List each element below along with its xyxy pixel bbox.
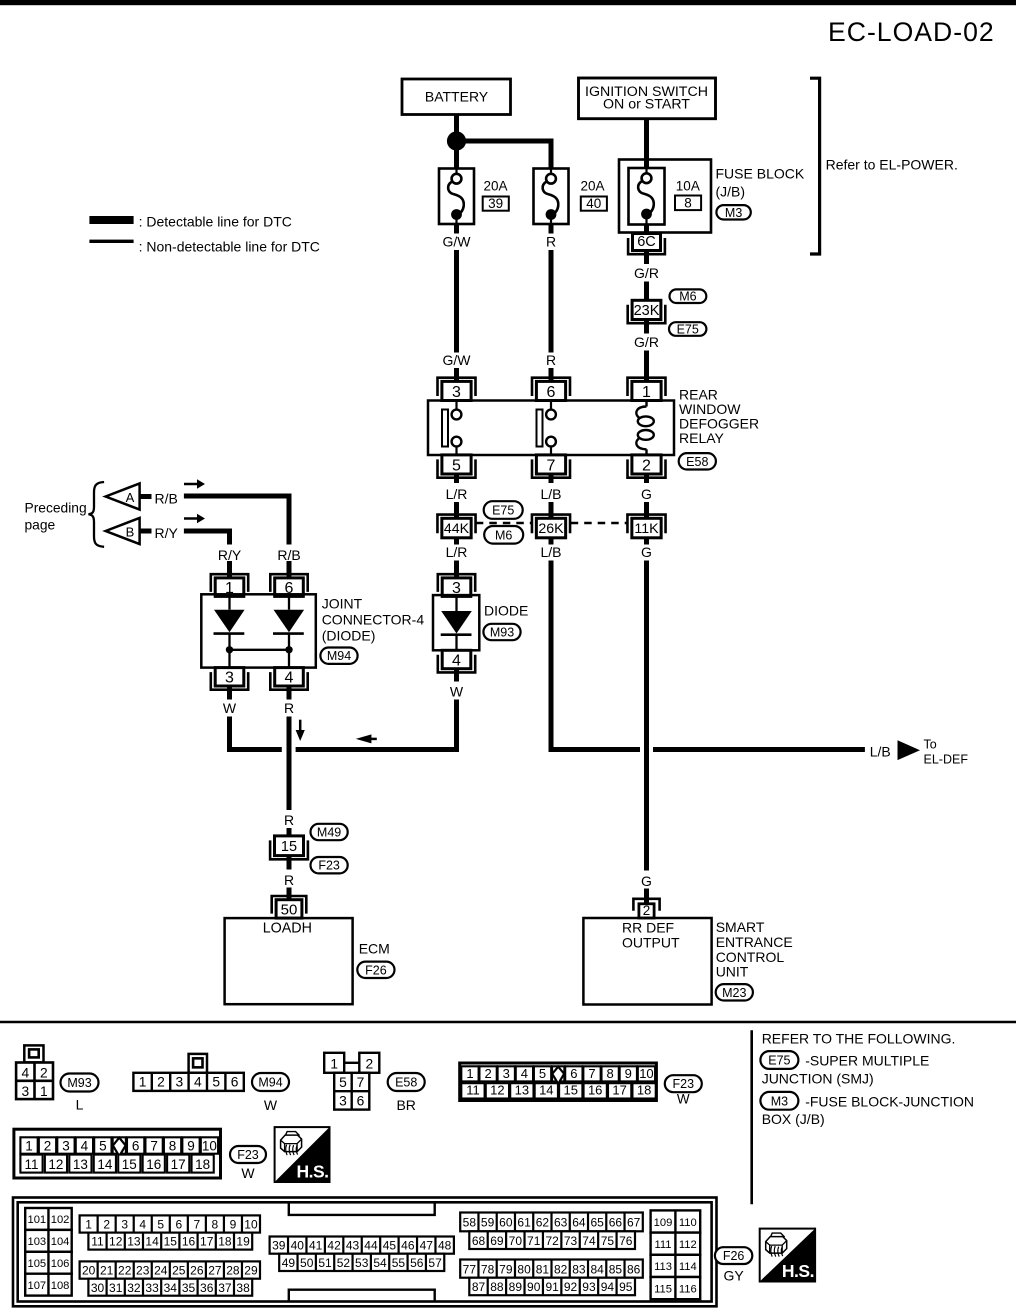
- ignition switch: [579, 78, 716, 119]
- wire 6C to 23K: [644, 251, 649, 301]
- svg-text:10: 10: [202, 1138, 217, 1153]
- joint connector-4 M94 box: [201, 594, 315, 667]
- svg-text:28: 28: [226, 1264, 240, 1278]
- F26 pins 77-95: [460, 1260, 643, 1296]
- svg-text:16: 16: [182, 1235, 196, 1249]
- wire R/B from preceding page: [184, 496, 289, 579]
- label GY F26: [723, 1267, 744, 1283]
- label BR E58: [396, 1097, 415, 1113]
- svg-text:45: 45: [383, 1239, 397, 1253]
- SMJ connector 44K: [437, 515, 475, 538]
- refer to EL-POWER bracket: [810, 78, 820, 254]
- svg-text:R/B: R/B: [277, 547, 300, 563]
- svg-text:R: R: [284, 812, 294, 828]
- dashed SMJ link 26K-11K: [571, 522, 628, 524]
- svg-text:ON or START: ON or START: [603, 96, 690, 112]
- wire ignition switch to fuse block: [644, 119, 649, 162]
- svg-text:Refer to EL-POWER.: Refer to EL-POWER.: [826, 157, 958, 173]
- svg-text:LOADH: LOADH: [263, 920, 312, 936]
- svg-text:23: 23: [136, 1264, 150, 1278]
- svg-text:46: 46: [401, 1239, 415, 1253]
- svg-text:G: G: [641, 873, 652, 889]
- wire relay pin 7 to 26K: [549, 474, 554, 519]
- svg-text:2: 2: [365, 1057, 373, 1072]
- svg-text:52: 52: [337, 1256, 351, 1270]
- diode symbol: [441, 595, 472, 650]
- label W F23 second: [241, 1165, 255, 1181]
- label W joint connector: [223, 700, 237, 716]
- svg-text:34: 34: [164, 1281, 178, 1295]
- svg-text:3: 3: [503, 1066, 510, 1081]
- svg-text:3: 3: [21, 1084, 29, 1099]
- svg-text:6C: 6C: [637, 234, 656, 250]
- svg-text:7: 7: [547, 458, 556, 475]
- svg-text:115: 115: [654, 1283, 672, 1295]
- ECM box: [225, 918, 353, 1004]
- svg-text:49: 49: [282, 1256, 296, 1270]
- svg-text:44K: 44K: [444, 521, 470, 537]
- svg-text:DIODE: DIODE: [484, 602, 528, 618]
- svg-text:14: 14: [145, 1235, 159, 1249]
- svg-text:A: A: [126, 490, 135, 505]
- svg-text:4: 4: [452, 652, 461, 669]
- svg-text:13: 13: [515, 1083, 529, 1098]
- wire fuse to 6C: [644, 225, 649, 234]
- label G/R lower: [634, 334, 659, 350]
- label R/Y preceding: [155, 525, 179, 541]
- svg-text:page: page: [25, 518, 56, 533]
- label 10A 8: [675, 179, 701, 211]
- connector M3 oval note: [760, 1092, 798, 1110]
- svg-text:59: 59: [481, 1216, 495, 1230]
- F26 pins 58-76: [460, 1213, 643, 1250]
- svg-text:9: 9: [187, 1138, 195, 1153]
- svg-text:3: 3: [176, 1074, 184, 1089]
- svg-text:: Non-detectable line for DTC: : Non-detectable line for DTC: [139, 238, 320, 254]
- svg-text:EC-LOAD-02: EC-LOAD-02: [828, 17, 995, 47]
- svg-text:90: 90: [527, 1280, 541, 1294]
- relay contact 3-5: [442, 401, 461, 456]
- svg-text:M94: M94: [258, 1076, 282, 1090]
- svg-text:2: 2: [44, 1138, 52, 1153]
- svg-text:74: 74: [582, 1234, 596, 1248]
- svg-text:108: 108: [51, 1280, 70, 1292]
- svg-text:30: 30: [91, 1281, 105, 1295]
- svg-text:L/R: L/R: [446, 486, 468, 502]
- svg-text:RELAY: RELAY: [679, 430, 725, 446]
- label LOADH: [263, 920, 312, 936]
- svg-text:17: 17: [612, 1083, 626, 1098]
- svg-text:6: 6: [132, 1138, 140, 1153]
- label 20A 40: [581, 179, 607, 211]
- svg-text:6: 6: [357, 1094, 365, 1109]
- svg-text:70: 70: [509, 1234, 523, 1248]
- label R upper: [546, 234, 556, 250]
- label R above M49: [284, 812, 294, 828]
- joint connector link wire: [230, 650, 290, 668]
- svg-text:106: 106: [51, 1258, 70, 1270]
- svg-text:G: G: [641, 486, 652, 502]
- wire fuse 39 to relay pin 3: [454, 224, 459, 382]
- label R/Y column: [218, 547, 242, 563]
- relay pin 1: [628, 378, 666, 401]
- svg-text:36: 36: [200, 1281, 214, 1295]
- SMJ connector 11K: [627, 515, 665, 538]
- svg-text:15: 15: [122, 1157, 137, 1172]
- svg-text:2: 2: [643, 903, 651, 918]
- arrow R/Y direction: [184, 514, 205, 523]
- svg-text:1: 1: [466, 1066, 473, 1081]
- svg-text:89: 89: [509, 1280, 523, 1294]
- F26 pins 1-19: [80, 1215, 260, 1249]
- svg-text:OUTPUT: OUTPUT: [622, 934, 680, 950]
- label L/R lower: [446, 544, 468, 560]
- label R joint connector: [284, 700, 294, 716]
- label G upper: [641, 486, 652, 502]
- relay pin 6: [532, 378, 570, 401]
- svg-text:1: 1: [85, 1218, 92, 1232]
- wire 11K to smart entrance: [644, 538, 649, 904]
- svg-text:40: 40: [586, 196, 601, 211]
- svg-text:JOINT: JOINT: [322, 596, 363, 612]
- wire 23K to relay pin 1: [644, 320, 649, 382]
- svg-text:1: 1: [25, 1138, 33, 1153]
- svg-text:10: 10: [244, 1218, 258, 1232]
- connector view F23 first: [460, 1063, 657, 1101]
- label ECM: [359, 941, 390, 957]
- F26 pins 39-57: [270, 1237, 454, 1272]
- svg-text:29: 29: [244, 1264, 258, 1278]
- H.S. symbol lower: [760, 1229, 815, 1282]
- svg-text:91: 91: [545, 1280, 559, 1294]
- svg-text:G/R: G/R: [634, 265, 659, 281]
- connector view E58: [324, 1053, 379, 1110]
- joint connector pin 4: [270, 668, 307, 690]
- svg-text:116: 116: [679, 1283, 697, 1295]
- svg-text:10A: 10A: [676, 179, 700, 194]
- svg-text:10: 10: [639, 1066, 653, 1081]
- battery: [402, 79, 511, 115]
- label R lower: [546, 352, 556, 368]
- svg-text:40: 40: [291, 1239, 305, 1253]
- svg-text:2: 2: [157, 1074, 165, 1089]
- connector view M94: [133, 1054, 243, 1091]
- svg-text:5: 5: [157, 1218, 164, 1232]
- svg-text:86: 86: [627, 1262, 641, 1276]
- svg-text:103: 103: [27, 1236, 46, 1248]
- svg-text:31: 31: [109, 1281, 123, 1295]
- svg-text:110: 110: [679, 1217, 697, 1229]
- svg-text:2: 2: [40, 1066, 48, 1081]
- svg-text:75: 75: [601, 1234, 615, 1248]
- connector view F23 second: [14, 1129, 221, 1178]
- svg-text:F26: F26: [723, 1249, 745, 1263]
- wire relay pin 2 to 11K: [644, 474, 649, 519]
- svg-text:W: W: [241, 1165, 255, 1181]
- svg-text:4: 4: [194, 1074, 202, 1089]
- svg-text:6: 6: [175, 1218, 182, 1232]
- svg-text:R/Y: R/Y: [218, 547, 242, 563]
- svg-text:51: 51: [318, 1256, 332, 1270]
- svg-text:14: 14: [539, 1083, 553, 1098]
- svg-text:21: 21: [100, 1264, 114, 1278]
- legend non-detectable line for DTC: [89, 238, 320, 254]
- svg-text:5: 5: [539, 1066, 546, 1081]
- svg-text:72: 72: [545, 1234, 559, 1248]
- svg-text:56: 56: [410, 1256, 424, 1270]
- svg-text:73: 73: [564, 1234, 578, 1248]
- svg-text:BOX (J/B): BOX (J/B): [762, 1111, 825, 1127]
- svg-text:M6: M6: [679, 290, 696, 304]
- svg-text:94: 94: [601, 1280, 615, 1294]
- svg-text:37: 37: [218, 1281, 232, 1295]
- svg-text:5: 5: [99, 1138, 107, 1153]
- svg-text:47: 47: [420, 1239, 434, 1253]
- F26 pins 109-116: [651, 1210, 701, 1299]
- label W M94: [264, 1097, 278, 1113]
- svg-text:E58: E58: [686, 455, 708, 469]
- relay pin 7: [532, 455, 570, 478]
- svg-text:20A: 20A: [484, 179, 508, 194]
- connector M93 oval bottom: [61, 1074, 99, 1092]
- svg-text:60: 60: [499, 1216, 513, 1230]
- connector E75 oval note: [760, 1051, 798, 1069]
- connector M93 oval: [483, 624, 520, 640]
- wire 15 to pin 50: [287, 856, 292, 900]
- svg-text:W: W: [450, 684, 464, 700]
- svg-text:F23: F23: [237, 1148, 259, 1162]
- svg-text:M6: M6: [495, 528, 512, 542]
- fuse 20A 40: [534, 169, 569, 225]
- svg-text:GY: GY: [723, 1267, 744, 1283]
- svg-text:18: 18: [218, 1235, 232, 1249]
- label G above pin 2: [641, 873, 652, 889]
- svg-text:71: 71: [527, 1234, 541, 1248]
- svg-text:104: 104: [51, 1236, 70, 1248]
- connector E75 oval upper: [669, 322, 706, 336]
- svg-text:27: 27: [208, 1264, 222, 1278]
- svg-text:88: 88: [490, 1280, 504, 1294]
- svg-text:83: 83: [572, 1262, 586, 1276]
- svg-text:E75: E75: [768, 1054, 790, 1068]
- label R/B preceding: [155, 491, 178, 507]
- svg-text:To: To: [924, 737, 937, 751]
- svg-text:25: 25: [172, 1264, 186, 1278]
- svg-text:9: 9: [230, 1218, 237, 1232]
- svg-text:1: 1: [642, 384, 651, 401]
- connector M23 oval: [716, 984, 753, 1000]
- wire inside fuse block: [644, 161, 649, 168]
- svg-text:3: 3: [339, 1094, 347, 1109]
- svg-text:20A: 20A: [581, 179, 605, 194]
- svg-text:2: 2: [484, 1066, 491, 1081]
- wire diode to merge: [296, 668, 457, 750]
- svg-text:82: 82: [554, 1262, 568, 1276]
- connector E75 oval mid: [484, 501, 523, 519]
- svg-text:H.S.: H.S.: [782, 1261, 814, 1281]
- svg-text:39: 39: [272, 1239, 286, 1253]
- svg-text:H.S.: H.S.: [296, 1161, 328, 1181]
- svg-text:8: 8: [169, 1138, 177, 1153]
- F26 pins 20-38: [80, 1261, 260, 1295]
- F26 pins 101-108: [25, 1208, 71, 1296]
- connector M6 oval mid: [484, 526, 523, 544]
- svg-text:17: 17: [171, 1157, 186, 1172]
- svg-text:M3: M3: [771, 1094, 788, 1108]
- svg-text:102: 102: [51, 1214, 70, 1226]
- label R above pin 50: [284, 872, 294, 888]
- svg-text:E75: E75: [492, 504, 514, 518]
- label L/B upper: [540, 486, 561, 502]
- svg-text:11: 11: [24, 1157, 38, 1172]
- svg-text:12: 12: [48, 1157, 63, 1172]
- label R/B column: [277, 547, 300, 563]
- label G/W upper: [443, 234, 472, 250]
- label L/B lower: [540, 544, 561, 560]
- svg-text:50: 50: [300, 1256, 314, 1270]
- svg-text:7: 7: [194, 1218, 201, 1232]
- svg-text:F23: F23: [318, 859, 340, 873]
- svg-text:95: 95: [619, 1280, 633, 1294]
- svg-text:G: G: [641, 544, 652, 560]
- svg-text:35: 35: [182, 1281, 196, 1295]
- label W F23 first: [677, 1092, 690, 1107]
- connector M94 oval: [320, 648, 357, 664]
- svg-text:24: 24: [154, 1264, 168, 1278]
- connector E58 oval: [679, 453, 716, 469]
- wire R/Y from preceding page: [184, 531, 230, 579]
- svg-text:43: 43: [346, 1239, 360, 1253]
- svg-text:R: R: [546, 352, 556, 368]
- svg-text:54: 54: [373, 1256, 387, 1270]
- svg-text:R: R: [284, 700, 294, 716]
- svg-text:ENTRANCE: ENTRANCE: [716, 934, 793, 950]
- svg-text:8: 8: [684, 195, 692, 210]
- svg-text:L/R: L/R: [446, 544, 468, 560]
- svg-text:67: 67: [627, 1216, 641, 1230]
- label SMART ENTRANCE CONTROL UNIT: [716, 919, 793, 979]
- wire 44K to diode: [454, 538, 459, 578]
- svg-text:38: 38: [236, 1281, 250, 1295]
- svg-text:63: 63: [554, 1216, 568, 1230]
- svg-text:-SUPER MULTIPLE: -SUPER MULTIPLE: [805, 1053, 929, 1069]
- connector M6 oval upper: [670, 289, 707, 303]
- label G/R upper: [634, 265, 659, 281]
- wire battery to junction: [454, 115, 459, 142]
- connector F23 oval mid: [311, 857, 348, 873]
- joint connector pin 1: [211, 574, 248, 597]
- svg-text:UNIT: UNIT: [716, 963, 749, 979]
- wire joint pin 4 to ECM: [287, 685, 292, 837]
- label SUPER MULTIPLE JUNCTION: [762, 1053, 930, 1087]
- svg-text:4: 4: [139, 1218, 146, 1232]
- SMJ connector 26K: [532, 515, 570, 538]
- connector 6C: [628, 234, 665, 255]
- svg-text:20: 20: [82, 1264, 96, 1278]
- svg-text:1: 1: [40, 1084, 48, 1099]
- svg-text:81: 81: [536, 1262, 550, 1276]
- diode pin 3: [438, 574, 475, 597]
- svg-text:L/B: L/B: [540, 486, 561, 502]
- fuse 10A 8: [629, 168, 665, 225]
- connector F23 oval bottom first: [665, 1075, 702, 1092]
- svg-text:3: 3: [62, 1138, 70, 1153]
- label G lower: [641, 544, 652, 560]
- joint connector junction B: [285, 646, 292, 653]
- svg-text:M3: M3: [725, 206, 742, 220]
- svg-text:4: 4: [521, 1066, 528, 1081]
- svg-text:58: 58: [463, 1216, 477, 1230]
- svg-text:57: 57: [428, 1256, 442, 1270]
- svg-text:(J/B): (J/B): [716, 184, 746, 200]
- label L/B at EL-DEF: [870, 743, 891, 759]
- svg-text:85: 85: [609, 1262, 623, 1276]
- svg-text:41: 41: [309, 1239, 323, 1253]
- svg-text:12: 12: [109, 1235, 123, 1249]
- svg-text:RR DEF: RR DEF: [622, 919, 674, 935]
- svg-text:77: 77: [463, 1262, 477, 1276]
- svg-text:84: 84: [590, 1262, 604, 1276]
- svg-text:1: 1: [330, 1057, 338, 1072]
- connector M3 oval: [716, 205, 750, 220]
- title EC-LOAD-02: [828, 17, 995, 47]
- arrow left on merge wire: [356, 734, 377, 743]
- svg-text:109: 109: [654, 1217, 673, 1229]
- svg-text:W: W: [223, 700, 237, 716]
- svg-text:L/B: L/B: [540, 544, 561, 560]
- svg-text:M93: M93: [490, 626, 514, 640]
- svg-text:SMART: SMART: [716, 919, 765, 935]
- svg-text:23K: 23K: [634, 303, 660, 319]
- svg-text:11K: 11K: [634, 521, 659, 537]
- diode M93 box: [433, 595, 479, 650]
- arrow down on R wire: [296, 720, 305, 741]
- joint connector diode A: [214, 594, 245, 650]
- svg-text:FUSE BLOCK: FUSE BLOCK: [716, 166, 805, 182]
- svg-text:114: 114: [679, 1261, 697, 1273]
- label FUSE BLOCK JUNCTION BOX: [762, 1093, 974, 1127]
- svg-text:12: 12: [490, 1083, 504, 1098]
- svg-text:26: 26: [190, 1264, 204, 1278]
- svg-text:F26: F26: [365, 963, 387, 977]
- joint connector junction A: [226, 646, 233, 653]
- svg-text:62: 62: [536, 1216, 550, 1230]
- svg-text:5: 5: [212, 1074, 220, 1089]
- svg-text:15: 15: [164, 1235, 178, 1249]
- label FUSE BLOCK (J/B): [716, 166, 805, 200]
- smart entrance control unit box: [583, 918, 711, 1005]
- svg-text:33: 33: [145, 1281, 159, 1295]
- label 20A 39: [483, 179, 509, 211]
- svg-text:REFER TO THE FOLLOWING.: REFER TO THE FOLLOWING.: [762, 1030, 956, 1046]
- relay pin 2: [628, 455, 666, 478]
- H.S. symbol upper: [275, 1127, 330, 1182]
- svg-text:78: 78: [481, 1262, 495, 1276]
- svg-text:G/R: G/R: [634, 334, 659, 350]
- label L M93: [76, 1096, 84, 1112]
- label JOINT CONNECTOR-4 (DIODE): [322, 596, 425, 644]
- svg-text:F23: F23: [673, 1077, 695, 1091]
- svg-text:M49: M49: [317, 826, 341, 840]
- svg-text:R: R: [284, 872, 294, 888]
- svg-text:68: 68: [472, 1234, 486, 1248]
- relay contact 6-7: [537, 401, 556, 456]
- svg-text:(DIODE): (DIODE): [322, 628, 376, 644]
- svg-text:11: 11: [91, 1235, 104, 1249]
- svg-text:53: 53: [355, 1256, 369, 1270]
- svg-text:Preceding: Preceding: [25, 501, 87, 516]
- svg-text:16: 16: [588, 1083, 602, 1098]
